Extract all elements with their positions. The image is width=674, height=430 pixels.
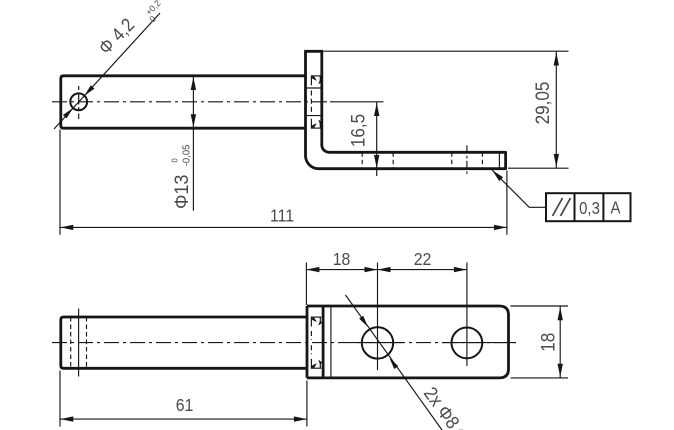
- svg-text:A: A: [611, 198, 621, 217]
- svg-text:61: 61: [176, 395, 194, 415]
- svg-text:18: 18: [538, 333, 559, 352]
- svg-text:111: 111: [270, 206, 294, 226]
- svg-text:29,05: 29,05: [532, 82, 553, 125]
- svg-text:Φ13: Φ13: [171, 175, 193, 209]
- svg-text:18: 18: [333, 249, 351, 269]
- svg-text:0: 0: [170, 158, 179, 163]
- svg-text:-0,05: -0,05: [181, 144, 192, 166]
- svg-text:16,5: 16,5: [348, 114, 369, 147]
- svg-text:22: 22: [414, 249, 432, 269]
- svg-text:0,3: 0,3: [579, 199, 600, 218]
